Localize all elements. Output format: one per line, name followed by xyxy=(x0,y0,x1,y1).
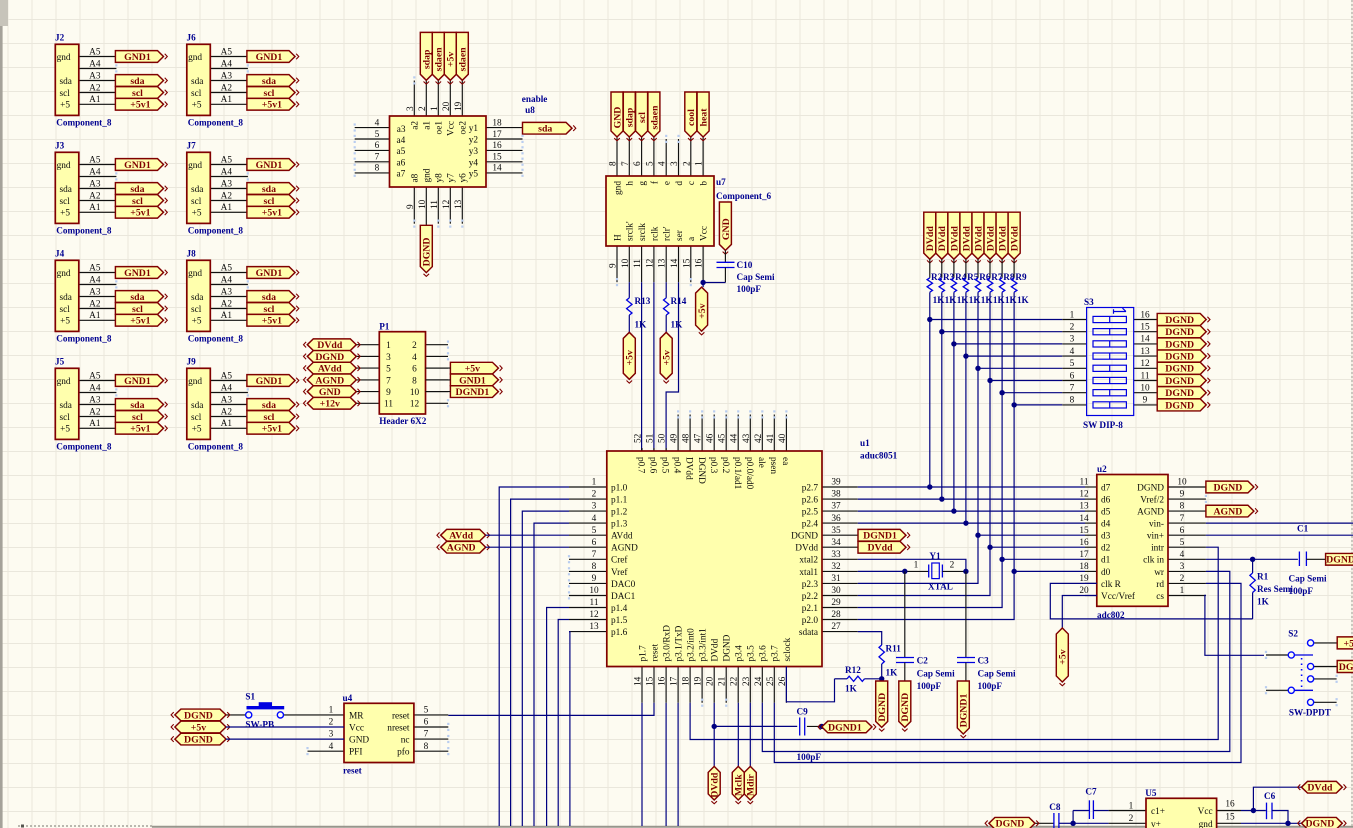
svg-text:p2.0: p2.0 xyxy=(802,616,819,626)
svg-text:DGND: DGND xyxy=(1326,555,1353,566)
port DVdd (R5) xyxy=(960,212,972,263)
wire u1 pin14 down xyxy=(641,703,643,826)
svg-text:13: 13 xyxy=(1079,502,1089,512)
wire R6 column xyxy=(977,292,979,535)
svg-text:A2: A2 xyxy=(89,83,101,93)
svg-text:Cref: Cref xyxy=(611,555,628,566)
svg-text:A2: A2 xyxy=(89,299,101,309)
svg-text:scl: scl xyxy=(264,88,275,99)
svg-text:p3.0/RxD: p3.0/RxD xyxy=(662,625,672,662)
svg-text:A5: A5 xyxy=(89,371,101,381)
wire p2.4 net xyxy=(858,522,1085,524)
svg-text:A5: A5 xyxy=(89,155,101,165)
svg-text:DGND: DGND xyxy=(1305,819,1334,828)
svg-text:v+: v+ xyxy=(1151,820,1161,828)
junction R8 / data row xyxy=(999,557,1004,562)
svg-text:5: 5 xyxy=(1070,359,1075,369)
port scl (J3) xyxy=(115,195,167,207)
svg-text:p0.7: p0.7 xyxy=(636,457,646,474)
svg-text:GND: GND xyxy=(721,218,732,240)
wire xtal1 net xyxy=(858,570,929,572)
svg-text:20: 20 xyxy=(442,101,452,111)
svg-text:reset: reset xyxy=(392,711,410,721)
svg-text:15: 15 xyxy=(682,258,692,268)
svg-text:vin+: vin+ xyxy=(1147,532,1164,542)
svg-text:16: 16 xyxy=(1079,538,1089,548)
svg-text:18: 18 xyxy=(1079,562,1089,572)
svg-text:+5v1: +5v1 xyxy=(130,316,150,327)
svg-text:21: 21 xyxy=(718,676,728,686)
connector J2 (Component_8) xyxy=(55,33,116,128)
svg-text:100pF: 100pF xyxy=(917,681,942,691)
svg-text:4: 4 xyxy=(1180,550,1185,560)
svg-text:DGND: DGND xyxy=(1165,339,1194,350)
svg-text:y5: y5 xyxy=(469,170,479,180)
resistor R1 Res Semi 1K xyxy=(1250,559,1294,619)
junction R3 / S3 row xyxy=(939,329,944,334)
svg-text:ale: ale xyxy=(756,457,766,468)
svg-text:1: 1 xyxy=(1129,801,1134,811)
svg-text:d7: d7 xyxy=(1101,483,1111,493)
svg-text:sda: sda xyxy=(60,401,72,411)
svg-text:u2: u2 xyxy=(1097,464,1107,474)
svg-text:3: 3 xyxy=(1180,562,1185,572)
svg-text:Vcc: Vcc xyxy=(447,121,457,136)
svg-text:Y1: Y1 xyxy=(929,551,941,561)
port scl (J9) xyxy=(247,411,299,423)
svg-text:sda: sda xyxy=(538,124,552,135)
svg-text:14: 14 xyxy=(1079,514,1089,524)
svg-text:4: 4 xyxy=(1070,347,1075,357)
svg-text:XTAL: XTAL xyxy=(928,582,953,592)
svg-text:DVdd: DVdd xyxy=(973,226,984,252)
svg-text:nc: nc xyxy=(401,736,410,746)
capacitor C6 xyxy=(1264,791,1288,823)
svg-text:DGND: DGND xyxy=(791,532,818,542)
junction R5 / S3 row xyxy=(963,353,968,358)
svg-text:b: b xyxy=(700,181,710,186)
svg-text:+5v1: +5v1 xyxy=(262,424,282,435)
IC u2 adc802 xyxy=(1079,464,1206,620)
svg-text:9: 9 xyxy=(609,263,619,268)
bus wires u1 left pins down xyxy=(499,487,570,826)
port DGND (S3 pin 9) xyxy=(1157,399,1210,411)
port DGND (S3 pin 10) xyxy=(1157,387,1210,399)
svg-text:a4: a4 xyxy=(397,136,406,146)
wire R4 column xyxy=(953,292,955,511)
port AVdd (P1) xyxy=(304,362,361,374)
connector J9 (Component_8) xyxy=(187,357,248,452)
svg-text:enable: enable xyxy=(522,94,548,104)
svg-text:3: 3 xyxy=(386,353,391,363)
svg-text:J2: J2 xyxy=(55,33,65,43)
wire R9 column xyxy=(1013,292,1015,571)
port sda (J5) xyxy=(115,399,167,411)
svg-text:A1: A1 xyxy=(89,419,101,429)
svg-text:6: 6 xyxy=(375,141,380,151)
svg-text:A5: A5 xyxy=(89,47,101,57)
svg-text:DGND: DGND xyxy=(1137,483,1164,493)
svg-text:15: 15 xyxy=(492,153,502,163)
svg-text:Component_8: Component_8 xyxy=(188,333,244,343)
svg-text:vin-: vin- xyxy=(1149,520,1164,530)
resistor R4 1K xyxy=(951,259,969,305)
svg-text:p3.7: p3.7 xyxy=(771,645,781,662)
port DVdd (R4) xyxy=(948,212,960,263)
svg-text:u7: u7 xyxy=(716,177,726,187)
svg-text:Vcc: Vcc xyxy=(349,723,364,733)
svg-text:sda: sda xyxy=(191,293,203,303)
svg-text:a: a xyxy=(687,237,697,241)
svg-text:A3: A3 xyxy=(89,395,101,405)
svg-text:+5v: +5v xyxy=(625,350,636,365)
wire vin+ net xyxy=(1206,534,1353,536)
wire AVdd to u1 pin5 xyxy=(486,534,569,536)
wire p2.0 net (jog up to d0) xyxy=(858,571,1085,619)
svg-text:U5: U5 xyxy=(1145,788,1157,798)
port DGND (S3 pin 13) xyxy=(1157,350,1210,362)
svg-text:2: 2 xyxy=(1180,574,1185,584)
svg-text:35: 35 xyxy=(831,526,841,536)
svg-text:gnd: gnd xyxy=(57,377,71,387)
svg-text:DGND: DGND xyxy=(1165,352,1194,363)
port +5v1 (J7) xyxy=(247,206,299,218)
port DGND (S2) xyxy=(1337,661,1353,673)
svg-text:1: 1 xyxy=(1180,586,1185,596)
wire DGND to u4 pin3 xyxy=(226,738,344,740)
svg-text:scl: scl xyxy=(60,305,71,315)
wire P1 pin8 to GND1 xyxy=(426,379,451,381)
svg-text:A4: A4 xyxy=(221,59,233,69)
port Mclk (u1 pin22) xyxy=(732,703,744,804)
svg-text:5: 5 xyxy=(1180,538,1185,548)
connector J3 (Component_8) xyxy=(55,141,116,236)
svg-text:Component_8: Component_8 xyxy=(56,441,112,451)
svg-text:A3: A3 xyxy=(221,287,233,297)
svg-text:DGND: DGND xyxy=(1339,662,1353,673)
svg-text:aduc8051: aduc8051 xyxy=(860,451,898,461)
port GND1 (J5) xyxy=(115,375,167,387)
wire Vcc/Vref to +5v xyxy=(1062,596,1097,629)
port DVdd (R8) xyxy=(996,212,1008,263)
svg-text:+5: +5 xyxy=(60,209,70,219)
svg-text:A5: A5 xyxy=(89,263,101,273)
svg-text:A4: A4 xyxy=(221,383,233,393)
svg-text:+5: +5 xyxy=(60,425,70,435)
svg-text:rclk: rclk xyxy=(650,226,660,241)
svg-text:J4: J4 xyxy=(55,249,65,259)
svg-text:A2: A2 xyxy=(221,83,233,93)
svg-text:51: 51 xyxy=(646,433,656,443)
port sda (J7) xyxy=(247,183,299,195)
svg-text:R9: R9 xyxy=(1015,272,1027,282)
capacitor C8 xyxy=(1035,802,1073,828)
port DVdd (u1 pin34) xyxy=(858,541,910,553)
svg-text:1: 1 xyxy=(430,106,440,111)
svg-text:reset: reset xyxy=(650,644,660,662)
svg-text:15: 15 xyxy=(1225,813,1235,823)
svg-text:AVdd: AVdd xyxy=(318,364,342,375)
svg-text:GND1: GND1 xyxy=(124,268,151,279)
junction u7 pin16 xyxy=(700,280,705,285)
port GND (u7) xyxy=(611,92,623,141)
wire p2.2 net (jog up to d2) xyxy=(858,547,1085,595)
svg-text:sda: sda xyxy=(60,77,72,87)
port sda (u8) xyxy=(523,122,576,134)
svg-text:19: 19 xyxy=(694,676,704,686)
svg-text:intr: intr xyxy=(1151,544,1165,554)
svg-text:R11: R11 xyxy=(886,644,902,654)
svg-text:scl: scl xyxy=(264,412,275,423)
port GND (right of u7) xyxy=(719,202,731,254)
svg-text:36: 36 xyxy=(831,514,841,524)
svg-text:29: 29 xyxy=(831,598,841,608)
svg-text:14: 14 xyxy=(634,676,644,686)
svg-text:10: 10 xyxy=(621,258,631,268)
svg-text:p2.5: p2.5 xyxy=(802,508,819,518)
svg-text:19: 19 xyxy=(454,101,464,111)
svg-text:A3: A3 xyxy=(221,395,233,405)
svg-text:p0.3: p0.3 xyxy=(708,457,718,474)
svg-text:gnd: gnd xyxy=(1199,820,1213,828)
svg-text:p1.6: p1.6 xyxy=(611,628,628,638)
svg-text:gnd: gnd xyxy=(188,377,202,387)
svg-text:p2.7: p2.7 xyxy=(802,483,819,493)
svg-text:8: 8 xyxy=(592,562,597,572)
svg-text:p1.1: p1.1 xyxy=(611,495,628,505)
svg-text:DGND: DGND xyxy=(422,238,433,267)
svg-text:J9: J9 xyxy=(187,357,197,367)
wire P1 pin6 to +5v xyxy=(426,367,451,369)
svg-text:10: 10 xyxy=(1177,478,1187,488)
port DVdd (U5) xyxy=(1298,781,1346,793)
svg-text:u4: u4 xyxy=(343,693,353,703)
svg-text:sda: sda xyxy=(130,184,144,195)
svg-text:16: 16 xyxy=(492,141,502,151)
svg-text:reset: reset xyxy=(343,766,363,776)
svg-text:DVdd: DVdd xyxy=(998,226,1009,252)
svg-text:9: 9 xyxy=(386,388,391,398)
svg-text:p2.1: p2.1 xyxy=(802,604,819,614)
svg-text:Res Semi: Res Semi xyxy=(1257,584,1293,594)
svg-text:52: 52 xyxy=(634,433,644,443)
svg-text:sda: sda xyxy=(60,293,72,303)
svg-text:32: 32 xyxy=(831,562,841,572)
svg-text:DGND: DGND xyxy=(900,693,911,722)
svg-text:Component_8: Component_8 xyxy=(56,117,112,127)
capacitor C1 xyxy=(1289,524,1327,597)
svg-text:c: c xyxy=(687,181,697,185)
switch S1 SW-PB xyxy=(245,692,284,730)
junction C9 left xyxy=(712,724,717,729)
svg-text:DVdd: DVdd xyxy=(317,340,343,351)
svg-text:sda: sda xyxy=(191,77,203,87)
svg-text:DVdd: DVdd xyxy=(961,226,972,252)
svg-text:+5v: +5v xyxy=(446,52,457,67)
svg-text:C10: C10 xyxy=(737,260,753,270)
svg-text:DGND: DGND xyxy=(1165,327,1194,338)
svg-text:sdap: sdap xyxy=(625,107,636,127)
port +5v1 (J2) xyxy=(115,98,167,110)
svg-text:sdata: sdata xyxy=(799,628,818,638)
port scl (J8) xyxy=(247,303,299,315)
svg-text:A5: A5 xyxy=(221,371,233,381)
svg-text:J3: J3 xyxy=(55,141,65,151)
resistor R9 1K xyxy=(1011,259,1029,305)
port +5v (u2) xyxy=(1056,628,1068,686)
port sda (J4) xyxy=(115,291,167,303)
port DVdd (P1) xyxy=(304,339,361,351)
svg-text:+5: +5 xyxy=(192,317,202,327)
port DGND (C2) xyxy=(899,681,911,731)
svg-text:DGND: DGND xyxy=(1165,364,1194,375)
port GND1 (J8) xyxy=(247,267,299,279)
svg-text:GND1: GND1 xyxy=(124,52,151,63)
svg-text:scl: scl xyxy=(191,305,202,315)
svg-text:A1: A1 xyxy=(89,95,101,105)
svg-text:xtal1: xtal1 xyxy=(799,568,818,578)
svg-text:p2.4: p2.4 xyxy=(802,520,819,530)
port DGND (S1) xyxy=(171,709,230,721)
port Mdir (u1 pin23) xyxy=(744,703,756,804)
svg-text:1K: 1K xyxy=(1005,295,1018,305)
svg-text:d1: d1 xyxy=(1101,556,1111,566)
svg-text:+5v: +5v xyxy=(1344,638,1353,649)
port sda (J3) xyxy=(115,183,167,195)
svg-text:9: 9 xyxy=(406,204,416,209)
svg-text:a2: a2 xyxy=(411,121,421,130)
svg-text:45: 45 xyxy=(718,433,728,443)
svg-text:39: 39 xyxy=(831,478,841,488)
svg-text:d3: d3 xyxy=(1101,532,1111,542)
connector J4 (Component_8) xyxy=(55,249,116,344)
svg-text:8: 8 xyxy=(609,161,619,166)
svg-text:d0: d0 xyxy=(1101,568,1111,578)
svg-text:scl: scl xyxy=(60,197,71,207)
svg-text:sda: sda xyxy=(262,184,276,195)
svg-text:DGND: DGND xyxy=(1165,315,1194,326)
svg-text:GND1: GND1 xyxy=(256,160,283,171)
wire u1 pin17 down xyxy=(677,703,679,826)
svg-text:xtal2: xtal2 xyxy=(799,556,818,566)
svg-text:15: 15 xyxy=(646,676,656,686)
svg-text:sclock: sclock xyxy=(783,637,793,661)
svg-text:A1: A1 xyxy=(221,203,233,213)
svg-text:A5: A5 xyxy=(221,155,233,165)
svg-text:gnd: gnd xyxy=(423,168,433,182)
svg-text:scl: scl xyxy=(264,304,275,315)
port AVdd (u1) xyxy=(437,529,490,541)
svg-text:p3.2/int0: p3.2/int0 xyxy=(687,628,697,662)
svg-text:1: 1 xyxy=(329,706,334,716)
svg-text:Vcc/Vref: Vcc/Vref xyxy=(1101,591,1136,602)
svg-text:Mclk: Mclk xyxy=(734,774,745,796)
port DVdd (R9) xyxy=(1008,212,1020,263)
svg-text:p0.5: p0.5 xyxy=(660,457,670,474)
wire R2 column xyxy=(929,292,931,487)
svg-text:AVdd: AVdd xyxy=(611,532,633,542)
svg-text:50: 50 xyxy=(658,433,668,443)
svg-text:9: 9 xyxy=(592,574,597,584)
svg-text:27: 27 xyxy=(831,622,841,632)
svg-text:20: 20 xyxy=(706,676,716,686)
resistor R2 1K xyxy=(927,259,945,305)
port DVdd (R3) xyxy=(936,212,948,263)
svg-text:4: 4 xyxy=(412,353,417,363)
svg-text:p1.7: p1.7 xyxy=(638,645,648,662)
svg-text:1K: 1K xyxy=(845,684,858,694)
svg-text:DGND: DGND xyxy=(996,819,1025,828)
svg-text:19: 19 xyxy=(1079,574,1089,584)
svg-text:+5v1: +5v1 xyxy=(262,208,282,219)
port +5v1 (J3) xyxy=(115,206,167,218)
svg-text:DGND1: DGND1 xyxy=(828,722,862,733)
svg-text:scl: scl xyxy=(132,412,143,423)
svg-text:10: 10 xyxy=(1140,384,1150,394)
svg-text:7: 7 xyxy=(386,376,391,386)
header P1 Header 6X2 xyxy=(356,321,448,426)
port scl (J4) xyxy=(115,303,167,315)
svg-text:2: 2 xyxy=(1070,323,1075,333)
svg-text:9: 9 xyxy=(1180,490,1185,500)
svg-text:C1: C1 xyxy=(1297,524,1309,534)
svg-text:p1.5: p1.5 xyxy=(611,616,628,626)
svg-text:47: 47 xyxy=(694,433,704,443)
svg-text:scl: scl xyxy=(60,89,71,99)
junction R8 / S3 row xyxy=(999,390,1004,395)
svg-text:GND1: GND1 xyxy=(124,160,151,171)
svg-text:d6: d6 xyxy=(1101,495,1111,505)
junction R7 / data row xyxy=(987,545,992,550)
wire cs net to S2 xyxy=(1205,595,1264,655)
svg-text:AGND: AGND xyxy=(447,543,476,554)
port GND1 (J2) xyxy=(115,51,167,63)
port sda (J6) xyxy=(247,75,299,87)
svg-text:10: 10 xyxy=(410,388,420,398)
svg-text:S2: S2 xyxy=(1288,629,1298,639)
svg-text:sdaen: sdaen xyxy=(649,105,660,130)
svg-text:a7: a7 xyxy=(397,170,406,180)
svg-text:14: 14 xyxy=(492,164,502,174)
svg-text:10: 10 xyxy=(589,586,599,596)
wire u7 pin11 to u1 pin52 xyxy=(641,282,643,451)
svg-text:C2: C2 xyxy=(917,656,929,666)
svg-text:A4: A4 xyxy=(89,275,101,285)
port +5v1 (J6) xyxy=(247,98,299,110)
svg-text:+5v1: +5v1 xyxy=(130,100,150,111)
port DGND (C8) xyxy=(985,817,1039,828)
svg-text:wr: wr xyxy=(1154,568,1165,578)
svg-text:DVdd: DVdd xyxy=(1010,226,1021,252)
svg-text:h: h xyxy=(626,181,636,186)
svg-text:Component_8: Component_8 xyxy=(188,441,244,451)
svg-text:+5v: +5v xyxy=(1058,649,1069,664)
port DGND (u2 pin10) xyxy=(1206,481,1258,493)
svg-text:rclr': rclr' xyxy=(663,226,673,241)
svg-text:Component_6: Component_6 xyxy=(716,191,772,201)
svg-text:DGND: DGND xyxy=(315,352,344,363)
svg-text:8: 8 xyxy=(424,742,429,752)
svg-text:6: 6 xyxy=(412,365,417,375)
svg-text:1K: 1K xyxy=(886,668,899,678)
port +5v (R13) xyxy=(623,332,635,383)
svg-text:sda: sda xyxy=(130,292,144,303)
svg-text:15: 15 xyxy=(1140,323,1150,333)
resistor R3 1K xyxy=(939,259,957,305)
svg-text:scl: scl xyxy=(191,413,202,423)
svg-text:scl: scl xyxy=(60,413,71,423)
svg-text:7: 7 xyxy=(592,550,597,560)
